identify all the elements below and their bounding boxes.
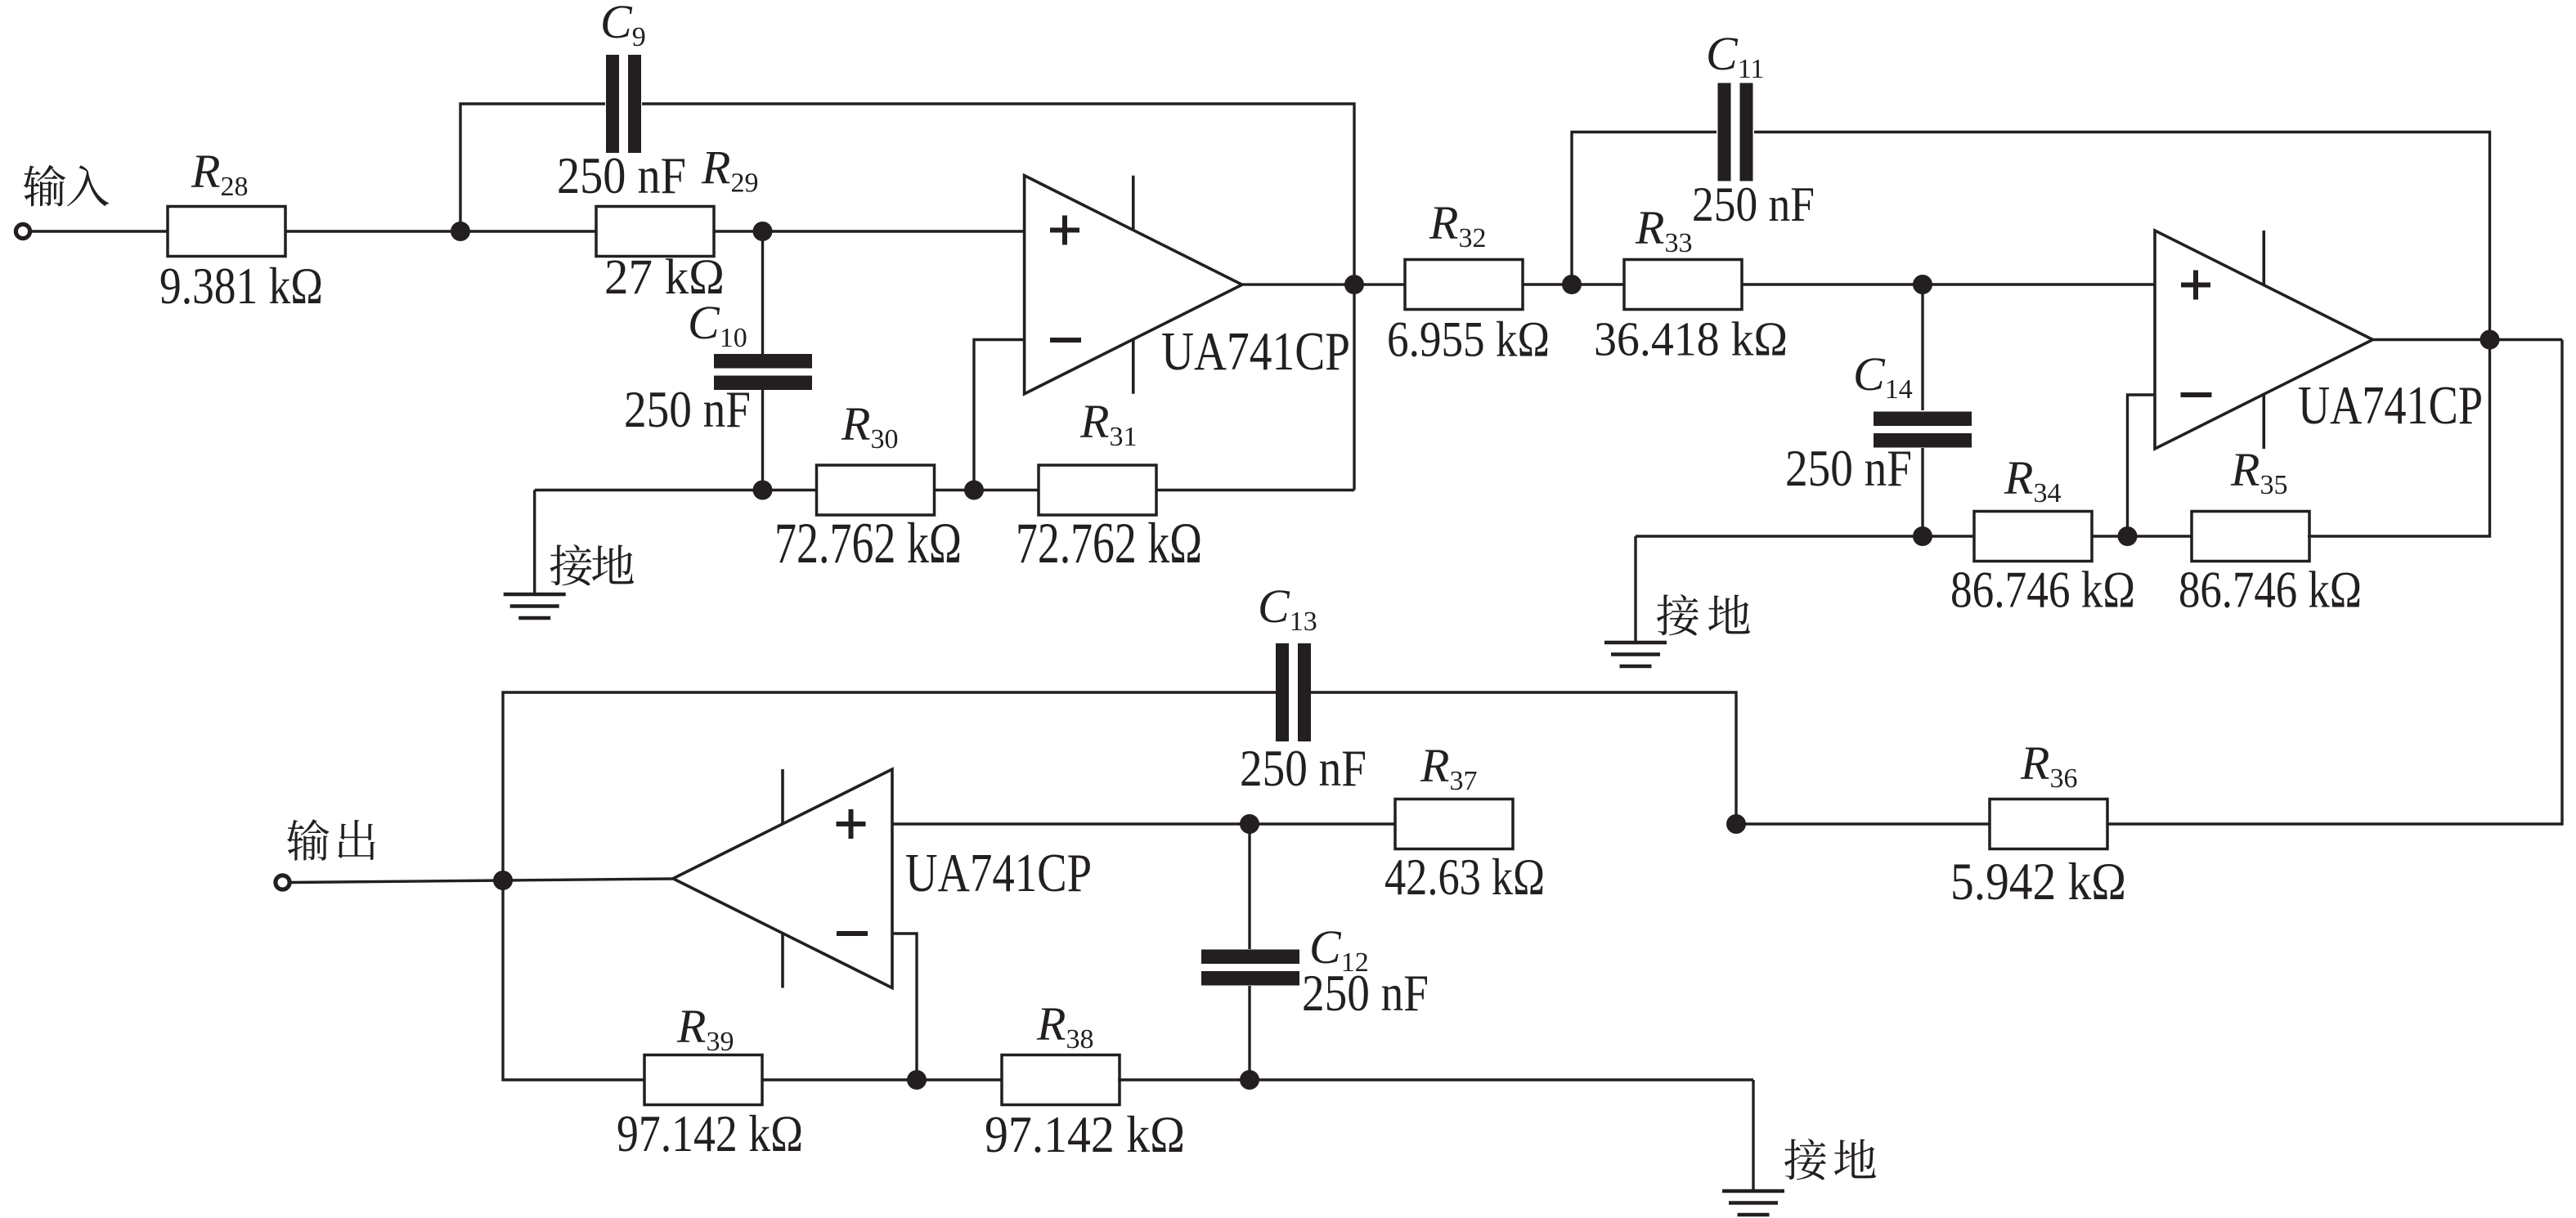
svg-text:C14: C14 xyxy=(1853,347,1913,405)
op-amp U3 minus input marker xyxy=(837,931,868,936)
terminal output xyxy=(276,875,289,889)
wire U3 output to node M xyxy=(503,879,673,880)
wire R36 to node K xyxy=(1736,822,1990,825)
label output 输出 xyxy=(287,819,375,861)
node M junction (U3 output) xyxy=(493,871,513,890)
node I junction (R34/R35/U2-) xyxy=(2118,526,2138,546)
op-amp U1 xyxy=(1025,176,1242,394)
svg-text:97.142 kΩ: 97.142 kΩ xyxy=(985,1105,1185,1163)
wire node D up to U1 minus input xyxy=(974,340,1025,490)
op-amp U3 xyxy=(673,769,892,988)
svg-text:R30: R30 xyxy=(841,397,898,455)
wire C9 to feedback node, down to R31 output xyxy=(642,104,1354,490)
node L junction (R37/C12/U3+) xyxy=(1240,814,1259,834)
capacitor C12 xyxy=(1201,950,1299,986)
wire down to ground 1 xyxy=(533,490,536,595)
svg-text:UA741CP: UA741CP xyxy=(1161,321,1350,382)
svg-text:250 nF: 250 nF xyxy=(1240,739,1367,797)
terminal input xyxy=(16,224,29,238)
node D junction (R30/R31/U1-) xyxy=(964,481,984,500)
resistor R38 xyxy=(1002,1055,1120,1105)
node A junction (R28/R29/C9) xyxy=(451,222,470,241)
svg-text:C11: C11 xyxy=(1706,27,1764,84)
wire down to ground 2 xyxy=(1634,536,1636,643)
wire ground rail 2 to R34 xyxy=(1636,535,1974,537)
svg-text:72.762 kΩ: 72.762 kΩ xyxy=(774,512,962,575)
svg-text:R28: R28 xyxy=(191,145,248,202)
ground 2 xyxy=(1604,643,1667,666)
capacitor C11 xyxy=(1718,83,1753,181)
svg-text:5.942 kΩ: 5.942 kΩ xyxy=(1950,853,2126,911)
label input 输入 xyxy=(24,165,110,207)
wire node N up to U3 minus input xyxy=(892,934,917,1080)
node B junction (R29/C10/U1+) xyxy=(753,222,773,241)
svg-text:R29: R29 xyxy=(701,141,758,199)
wire node F up to C11 xyxy=(1572,132,1717,285)
wire node A up to C9 xyxy=(460,104,605,231)
wire ground rail to R30 xyxy=(535,489,817,491)
wire down to ground 3 xyxy=(1752,1080,1754,1191)
ground 1 xyxy=(504,594,566,618)
svg-text:C13: C13 xyxy=(1258,580,1317,637)
svg-text:C9: C9 xyxy=(600,0,646,52)
svg-text:250 nF: 250 nF xyxy=(557,146,686,204)
svg-text:UA741CP: UA741CP xyxy=(905,843,1092,903)
wire R29 to op-amp U1 plus input xyxy=(714,230,1025,232)
svg-text:R33: R33 xyxy=(1635,201,1692,258)
wire R34 to R35 xyxy=(2092,535,2192,537)
capacitor C10 xyxy=(714,354,812,390)
resistor R37 xyxy=(1395,799,1513,849)
op-amp U3 plus input marker xyxy=(837,809,866,839)
svg-text:C10: C10 xyxy=(688,296,747,353)
label ground 3 接地 xyxy=(1784,1139,1876,1180)
wire U1 output to R32 xyxy=(1242,283,1405,285)
wire down right edge to R36 xyxy=(2107,340,2562,825)
capacitor C9 xyxy=(606,55,641,153)
label ground 2 接地 xyxy=(1657,594,1750,635)
svg-text:R34: R34 xyxy=(2004,451,2061,508)
wire U2 output right xyxy=(2373,338,2563,341)
wire node M to output terminal xyxy=(291,880,503,883)
svg-text:250 nF: 250 nF xyxy=(1302,964,1429,1022)
svg-text:R39: R39 xyxy=(676,1000,734,1057)
svg-text:42.63 kΩ: 42.63 kΩ xyxy=(1384,848,1545,906)
op-amp U1 plus input marker xyxy=(1050,216,1079,245)
op-amp U2 xyxy=(2155,231,2373,449)
wire R28 to R29 xyxy=(285,230,596,232)
wire node B down to C10 xyxy=(761,231,764,354)
node E junction (U1 output) xyxy=(1344,275,1364,294)
svg-text:86.746 kΩ: 86.746 kΩ xyxy=(2179,562,2362,619)
svg-text:9.381 kΩ: 9.381 kΩ xyxy=(159,257,323,315)
resistor R29 xyxy=(596,207,714,257)
resistor R36 xyxy=(1990,799,2107,849)
wire node K up-left to C13 xyxy=(1311,692,1736,824)
resistor R39 xyxy=(644,1055,762,1105)
node C junction (C10/ground rail) xyxy=(753,481,773,500)
node J junction (U2 output) xyxy=(2480,330,2500,350)
resistor R30 xyxy=(817,465,935,515)
label ground 1 接地 xyxy=(550,544,634,585)
resistor R34 xyxy=(1974,512,2092,562)
svg-text:36.418 kΩ: 36.418 kΩ xyxy=(1594,312,1788,366)
node F junction (R32/R33/C11) xyxy=(1562,275,1582,294)
svg-text:R36: R36 xyxy=(2020,737,2077,794)
resistor R31 xyxy=(1039,465,1156,515)
node G junction (R33/C14/U2+) xyxy=(1913,275,1932,294)
svg-text:UA741CP: UA741CP xyxy=(2298,375,2483,436)
wire input to R28 xyxy=(32,230,168,232)
wire R35 up to U2 output node xyxy=(2308,340,2490,537)
svg-text:86.746 kΩ: 86.746 kΩ xyxy=(1950,562,2135,619)
capacitor C14 xyxy=(1874,412,1972,448)
op-amp U2 plus input marker xyxy=(2181,271,2210,300)
wire C12 down to bottom rail xyxy=(1248,986,1250,1080)
wire R38 to bottom-right ground xyxy=(1118,1078,1753,1081)
wire R32 to R33 xyxy=(1523,283,1624,285)
svg-text:250 nF: 250 nF xyxy=(1692,177,1815,231)
wire output node down to R39 xyxy=(503,880,644,1080)
wire node L down to C12 xyxy=(1248,824,1250,949)
resistor R35 xyxy=(2192,512,2309,562)
svg-text:R37: R37 xyxy=(1420,739,1477,796)
capacitor C13 xyxy=(1276,643,1311,741)
node H junction (C14/ground rail 2) xyxy=(1913,526,1932,546)
node O junction (R38/C12 bottom) xyxy=(1240,1070,1259,1090)
node N junction (R39/R38/U3-) xyxy=(907,1070,927,1090)
svg-text:250 nF: 250 nF xyxy=(1785,439,1912,497)
svg-text:97.142 kΩ: 97.142 kΩ xyxy=(617,1104,803,1162)
wire R33 to U2 plus input xyxy=(1743,283,2155,285)
op-amp U1 minus input marker xyxy=(1050,338,1081,343)
wire R30 to R31 xyxy=(934,489,1039,491)
svg-text:250 nF: 250 nF xyxy=(624,380,751,438)
wire R31 to feedback node xyxy=(1156,489,1354,491)
node K junction (R36/R37/C13) xyxy=(1726,814,1746,834)
wire R37 to U3 plus input xyxy=(892,822,1395,825)
svg-text:R38: R38 xyxy=(1036,997,1093,1055)
wire C13 left and down to output node xyxy=(503,692,1276,880)
resistor R28 xyxy=(168,207,285,257)
svg-text:6.955 kΩ: 6.955 kΩ xyxy=(1387,313,1550,368)
wire C11 to U2 output node xyxy=(1754,132,2490,340)
svg-text:72.762 kΩ: 72.762 kΩ xyxy=(1016,512,1202,575)
wire C10 to ground rail xyxy=(761,390,764,490)
op-amp U2 minus input marker xyxy=(2181,392,2212,397)
wire C14 to ground rail 2 xyxy=(1921,448,1923,536)
svg-text:R31: R31 xyxy=(1079,395,1137,452)
ground 3 xyxy=(1722,1191,1784,1215)
svg-text:R35: R35 xyxy=(2230,443,2287,500)
resistor R33 xyxy=(1624,260,1742,310)
wire node I up to U2 minus input xyxy=(2128,395,2156,536)
wire node G down to C14 xyxy=(1921,284,1923,410)
svg-text:R32: R32 xyxy=(1429,196,1486,253)
wire R39 to R38 xyxy=(762,1078,1002,1081)
resistor R32 xyxy=(1405,260,1523,310)
